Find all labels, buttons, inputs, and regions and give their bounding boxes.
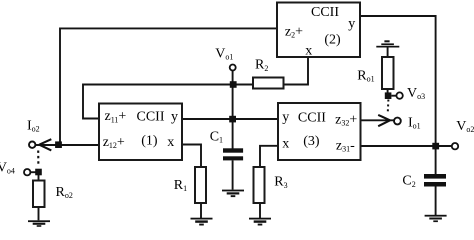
svg-text:(1): (1) <box>141 133 158 148</box>
wire Ro2 top stem <box>38 175 40 181</box>
wire Ro1 top stem <box>387 48 389 58</box>
ground under C2 <box>425 215 447 222</box>
dotted link Io2 to Vo4 <box>37 151 39 167</box>
svg-text:x: x <box>167 135 174 150</box>
wire junction to z12 <box>35 144 99 146</box>
wire R2 right to CCII2 x <box>284 57 309 85</box>
wire y-line block1 to block3 <box>182 118 278 120</box>
svg-text:x: x <box>282 137 289 152</box>
wire Vo3 to square <box>392 95 397 97</box>
arrow Io1 (right pointing) <box>378 115 390 126</box>
svg-text:CCII: CCII <box>311 5 339 20</box>
wire Ro2 bottom stem <box>38 207 40 220</box>
node Io2 terminal <box>29 142 35 148</box>
wire Ro1 bottom stem <box>387 89 389 93</box>
node Io1 terminal <box>394 118 401 125</box>
junction on R2 line <box>230 81 237 88</box>
capacitor C1 <box>223 148 243 160</box>
op-amp U1 CCII block 1 <box>99 104 182 161</box>
node Vo4 terminal <box>24 169 30 175</box>
resistor R2 <box>253 78 284 89</box>
resistor Ro1 <box>382 57 394 89</box>
wire R1 to ground <box>200 203 202 218</box>
svg-text:y: y <box>348 17 355 32</box>
wire z11 L-shape <box>83 85 253 119</box>
junction on z12 line <box>55 141 62 148</box>
wire z2+ top horizontal <box>60 27 277 29</box>
node Vo2 terminal <box>452 143 458 149</box>
ground under C1 <box>222 190 244 197</box>
dotted link Vo3 to Io1 <box>387 100 390 115</box>
svg-text:x: x <box>305 44 312 59</box>
wire block3 x to R3 <box>260 146 278 167</box>
node Vo3 terminal <box>396 92 402 98</box>
wire C2 to ground <box>435 187 437 216</box>
svg-text:CCII: CCII <box>298 110 326 125</box>
wire outer left vertical <box>59 28 61 146</box>
junction on Vo2 line <box>432 143 439 150</box>
wire R3 to ground <box>259 203 261 218</box>
svg-text:CCII: CCII <box>137 109 165 124</box>
svg-text:y: y <box>171 109 178 124</box>
resistor R1 <box>195 167 206 203</box>
probe square Vo3 <box>385 92 392 99</box>
resistor R3 <box>254 167 265 203</box>
svg-text:(2): (2) <box>324 33 341 48</box>
wire z32 output <box>361 119 395 121</box>
op-amp U2 CCII block 2 <box>277 3 360 59</box>
wire CCII2 y to top right <box>360 16 436 174</box>
junction on y-line <box>229 116 236 123</box>
ground under R3 <box>249 218 271 226</box>
inverted ground above Ro1 <box>376 40 399 47</box>
op-amp U3 CCII block 3 <box>278 103 361 160</box>
svg-text:(3): (3) <box>303 134 320 149</box>
probe square Vo4 <box>35 169 42 176</box>
node Vo1 terminal <box>230 65 236 71</box>
ground under R1 <box>191 218 213 226</box>
svg-text:y: y <box>282 110 289 125</box>
ground under Ro2 <box>28 220 50 227</box>
wire z31 to Vo2 <box>361 145 452 147</box>
wire block1 x to R1 <box>182 145 201 168</box>
capacitor C2 <box>424 174 446 187</box>
wire Vo4 to square <box>30 171 36 173</box>
wire C1 to ground <box>232 160 234 189</box>
resistor Ro2 <box>33 181 45 208</box>
arrow Io2 (left pointing) <box>39 139 51 150</box>
wire Vo1 drop <box>232 71 234 149</box>
